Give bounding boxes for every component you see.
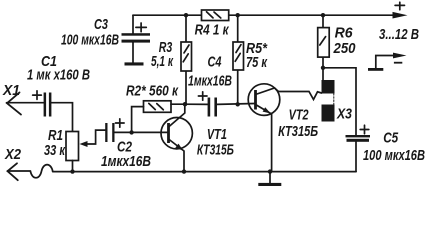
resistor R6 xyxy=(318,28,330,57)
svg-text:КТ315Б: КТ315Б xyxy=(278,123,318,140)
node C4 plus sign xyxy=(198,92,207,100)
wire C2 to VT1 base xyxy=(115,131,168,133)
svg-text:100 мкх16В: 100 мкх16В xyxy=(61,33,119,49)
wire node to C4 xyxy=(185,103,208,105)
resistor R1 potentiometer xyxy=(66,132,79,161)
node minus sign xyxy=(394,62,402,64)
node minus terminal ground bar xyxy=(368,68,383,71)
svg-text:R4 1 к: R4 1 к xyxy=(195,22,230,39)
node minus arrowhead xyxy=(393,53,407,59)
wire C4 to VT2 base xyxy=(217,103,254,106)
wire VT2 collector xyxy=(256,88,322,100)
svg-text:VT2: VT2 xyxy=(289,107,309,124)
svg-text:КТ315Б: КТ315Б xyxy=(197,142,234,159)
wire C1 to R1 xyxy=(51,103,72,132)
node C1 plus sign xyxy=(33,91,42,100)
node C2 plus sign xyxy=(116,119,125,127)
wire C3 bottom lead xyxy=(132,43,134,63)
node junction base node xyxy=(129,130,133,134)
wire VT1 emitter xyxy=(169,139,185,172)
node junction R1 bottom rail xyxy=(70,169,74,173)
svg-text:1 мк х160 В: 1 мк х160 В xyxy=(27,68,90,84)
wire top supply rail xyxy=(133,14,394,16)
capacitor C5 xyxy=(346,135,371,142)
svg-text:R2* 560 к: R2* 560 к xyxy=(126,83,179,100)
svg-text:С4: С4 xyxy=(208,54,222,71)
node VT2 emitter arrowhead xyxy=(263,107,271,113)
node junction VT1 collector node xyxy=(183,102,187,106)
node plus sign supply xyxy=(395,2,404,10)
resistor R3 xyxy=(181,42,192,71)
wire R3 branch xyxy=(185,15,187,104)
wire R5 branch xyxy=(237,15,239,104)
svg-text:100 мкх16В: 100 мкх16В xyxy=(363,148,425,164)
node VT2 base bar xyxy=(254,90,257,110)
transistor VT1 xyxy=(161,118,192,149)
node R1 wiper arrow xyxy=(80,141,88,147)
capacitor C4 xyxy=(208,98,217,117)
svg-text:33 к: 33 к xyxy=(44,142,66,159)
node junction C4-R5-VT2 xyxy=(236,102,240,106)
wire C3 top lead xyxy=(132,15,134,33)
node plus supply arrowhead xyxy=(393,12,408,19)
wire R1 bottom xyxy=(72,161,74,172)
wire R2 left lead xyxy=(132,107,144,133)
svg-text:3...12 В: 3...12 В xyxy=(379,26,419,43)
capacitor C2 xyxy=(105,123,114,142)
node junction rail-R6 xyxy=(321,13,325,17)
wire ground stem xyxy=(269,172,271,183)
svg-text:1мкх16В: 1мкх16В xyxy=(101,154,151,170)
connector X3 insulator gap xyxy=(333,94,335,105)
node C3 plus sign xyxy=(136,23,146,32)
wire X2 to squiggle xyxy=(8,170,31,172)
wire bottom common rail xyxy=(53,171,356,173)
node VT1 emitter arrowhead xyxy=(175,144,183,151)
wire squiggle xyxy=(30,165,52,178)
wire minus terminal xyxy=(376,56,394,69)
resistor R4 xyxy=(202,10,229,21)
svg-text:Х3: Х3 xyxy=(336,106,352,123)
capacitor C1 xyxy=(44,93,52,117)
wire VT1 collector xyxy=(169,104,185,127)
ground under C3 xyxy=(125,62,144,65)
connector X1 arrow xyxy=(7,92,21,114)
node junction rail-R5 xyxy=(236,13,240,17)
svg-text:VT1: VT1 xyxy=(207,126,227,143)
node junction rail-R3 xyxy=(184,13,188,17)
node junction VT2 emitter rail xyxy=(268,169,272,173)
svg-text:1мкх16В: 1мкх16В xyxy=(188,74,232,90)
connector X3 plug top contact xyxy=(322,80,335,94)
svg-text:С5: С5 xyxy=(383,130,399,147)
resistor R2 xyxy=(144,101,172,113)
svg-text:250: 250 xyxy=(333,40,356,57)
svg-text:Х1: Х1 xyxy=(2,82,20,99)
capacitor C3 xyxy=(122,33,151,42)
connector X2 arrow xyxy=(8,163,18,180)
svg-text:Х2: Х2 xyxy=(4,146,21,163)
svg-text:5,1 к: 5,1 к xyxy=(151,53,174,70)
svg-text:С3: С3 xyxy=(94,16,108,33)
wire C5 bottom lead xyxy=(355,142,357,172)
connector X3 plug sleeve contact xyxy=(322,105,335,122)
transistor VT2 xyxy=(248,84,280,116)
node VT1 base bar xyxy=(167,123,170,143)
wire X1 to C1 xyxy=(7,102,44,104)
wire R1 wiper to C2 xyxy=(87,130,106,144)
node C5 plus sign xyxy=(360,125,369,134)
wire VT2 emitter xyxy=(256,105,272,172)
resistor R5 xyxy=(233,42,244,70)
node junction VT1 emitter rail xyxy=(182,169,186,173)
wire R6 node to C5 xyxy=(323,68,356,135)
svg-text:75 к: 75 к xyxy=(246,54,268,71)
wire R6 branch xyxy=(322,15,324,80)
node junction R6 bottom xyxy=(321,66,325,70)
wire R2 right lead xyxy=(171,103,185,105)
svg-text:С2: С2 xyxy=(117,139,133,156)
ground under VT2 xyxy=(258,183,281,186)
svg-text:R6: R6 xyxy=(335,25,354,42)
